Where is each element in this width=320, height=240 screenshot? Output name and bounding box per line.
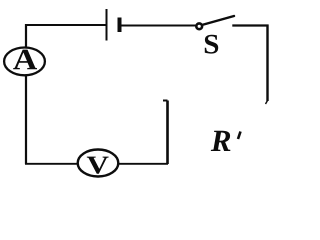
wire left vertical xyxy=(25,24,27,164)
voltmeter label V xyxy=(87,157,109,174)
switch label S xyxy=(205,35,218,54)
resistor label R xyxy=(211,131,231,151)
wire battery to switch xyxy=(121,25,198,27)
middle vertical top tick xyxy=(163,100,168,102)
switch pivot circle xyxy=(196,23,202,29)
ammeter label A xyxy=(13,50,37,70)
ammeter body xyxy=(4,48,45,76)
wire middle vertical (open end up) xyxy=(166,101,169,165)
wire top-left horizontal segment xyxy=(25,24,107,26)
voltmeter body xyxy=(78,150,119,177)
wire right vertical (open end) xyxy=(266,25,268,102)
resistor label prime mark xyxy=(238,132,241,140)
switch blade xyxy=(202,16,234,25)
wire switch to top-right corner xyxy=(232,24,268,26)
battery short plate (negative) xyxy=(118,18,122,33)
wire bottom horizontal xyxy=(25,163,168,165)
right vertical end tick xyxy=(266,101,268,105)
battery long plate (positive) xyxy=(106,9,108,41)
